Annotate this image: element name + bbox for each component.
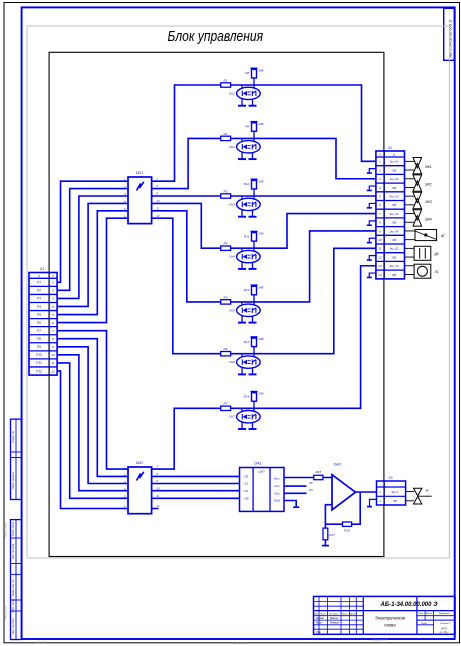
svg-text:Вых: Вых [274, 477, 280, 481]
svg-text:ЭК4: ЭК4 [425, 217, 432, 221]
valve EK4 [413, 210, 422, 226]
wire X2 row 14 to L1 [405, 273, 415, 275]
wire DD2 pin 10 to DAC D2 [152, 490, 240, 492]
power tap +24V unit 4 [253, 232, 255, 233]
resistor R4 [221, 246, 231, 250]
resistor R5 [221, 300, 231, 304]
svg-text:Р9: Р9 [37, 345, 41, 349]
optocoupler VU2 [237, 141, 261, 153]
svg-text:24В: 24В [257, 285, 263, 289]
optocoupler VU3 output legs [241, 210, 243, 217]
svg-text:10: 10 [156, 486, 160, 490]
optocoupler VU7 output legs [241, 422, 243, 429]
terminal block X2 [376, 151, 405, 279]
svg-text:Перв. примен.: Перв. примен. [11, 471, 15, 489]
svg-text:10: 10 [378, 238, 382, 242]
svg-text:Р1: Р1 [37, 281, 41, 285]
power tap +24V unit 6 [253, 337, 255, 338]
resistor R17 [323, 528, 328, 540]
svg-text:Масштаб: Масштаб [439, 613, 450, 615]
terminal block X3 [377, 481, 406, 505]
svg-text:Эм_Д1: Эм_Д1 [389, 247, 399, 251]
svg-text:Оп1: Оп1 [274, 484, 280, 488]
svg-text:VU3: VU3 [229, 202, 235, 206]
optocoupler VU4 output legs [241, 262, 243, 269]
svg-text:ОВ: ОВ [392, 255, 396, 259]
svg-text:8: 8 [52, 337, 54, 341]
svg-text:12: 12 [51, 369, 55, 373]
svg-text:R16: R16 [344, 529, 350, 533]
svg-text:R14: R14 [244, 394, 250, 398]
svg-text:Утв.: Утв. [316, 632, 322, 634]
resistor R13 [252, 338, 257, 347]
wire X2 row 9 to AT1 [405, 230, 416, 232]
svg-text:Ц: Ц [393, 153, 395, 157]
svg-text:Блок управления: Блок управления [168, 29, 264, 45]
svg-text:Подп.: Подп. [342, 613, 348, 616]
svg-text:7: 7 [52, 329, 54, 333]
svg-text:24В: 24В [257, 232, 263, 236]
svg-text:R8: R8 [245, 71, 249, 75]
wire X1 row 5 to DD1 pin 5 [57, 211, 128, 315]
svg-text:VU2: VU2 [229, 145, 235, 149]
boundary line through X2 [383, 151, 385, 279]
wire X2 row 12 to D1 [405, 256, 415, 258]
svg-text:24В: 24В [257, 122, 263, 126]
svg-text:Разраб.: Разраб. [316, 618, 325, 620]
wire X2 row 11 to D1 [405, 247, 415, 249]
svg-text:12: 12 [156, 504, 160, 508]
svg-text:5: 5 [52, 313, 54, 317]
resistor R9 [252, 123, 257, 132]
svg-text:ОВ: ОВ [392, 203, 396, 207]
svg-text:R6: R6 [224, 347, 228, 351]
device boundary rectangle [49, 52, 384, 556]
unit outline (gray) [27, 26, 449, 558]
svg-text:Ц: Ц [38, 274, 40, 278]
resistor R8 [252, 69, 257, 78]
svg-text:схема: схема [384, 623, 396, 628]
common bar at DAC GND [293, 506, 299, 508]
svg-text:D0: D0 [244, 475, 248, 479]
svg-text:ОВ: ОВ [392, 221, 396, 225]
optocoupler VU2 output legs [241, 152, 243, 159]
svg-text:R7: R7 [224, 402, 228, 406]
svg-text:Л1: Л1 [434, 270, 439, 274]
wire X3 row 2 to valve N [406, 500, 414, 502]
svg-text:Лит.: Лит. [417, 613, 424, 615]
svg-text:ОВ: ОВ [392, 186, 396, 190]
resistor R12 [252, 286, 257, 295]
wire feedback resistor to op-amp output [352, 492, 361, 524]
wire X1 row 9 to DD2 pin 3 [57, 347, 128, 484]
power tap +24V unit 3 [253, 179, 255, 180]
wire DD1 pin 8 to unit 2 to X2 row 3 [152, 138, 376, 188]
svg-text:1: 1 [52, 281, 54, 285]
svg-text:R12: R12 [244, 288, 250, 292]
svg-text:13: 13 [378, 264, 382, 268]
svg-text:ОВ: ОВ [392, 238, 396, 242]
wire DD1 pin 9 to unit 3 to X2 row 5 [152, 195, 376, 197]
svg-text:Р10: Р10 [36, 353, 42, 357]
wire DD2 pin 7 to unit 7 to X2 row 13 [152, 266, 376, 469]
svg-text:ОВ: ОВ [393, 499, 397, 503]
wire DAC out to op-amp input [284, 477, 332, 479]
wire X2 row 13 to L1 [405, 265, 415, 267]
svg-text:Лист: Лист [420, 623, 427, 625]
common hook at X3 row 2 [370, 499, 377, 506]
power tap +24V unit 1 [253, 68, 255, 69]
common hooks at X2 even rows [369, 169, 376, 173]
svg-text:Копировал: Копировал [233, 641, 247, 645]
svg-text:Оп2: Оп2 [274, 491, 280, 495]
wire X1 row 4 to DD1 pin 4 [57, 203, 128, 306]
svg-text:VU1: VU1 [229, 91, 235, 95]
power tap +24V unit 5 [253, 285, 255, 286]
svg-text:Листов 1: Листов 1 [439, 623, 451, 625]
wire X2 row 7 to valve EK4 [405, 213, 416, 215]
wire X1 row 12 to DD2 pin 6 [57, 371, 128, 509]
svg-text:Эм_К1: Эм_К1 [389, 160, 399, 164]
svg-text:DD1: DD1 [136, 171, 144, 175]
svg-text:Р12: Р12 [36, 369, 42, 373]
wire op-amp inverting input to feedback node [325, 505, 342, 525]
svg-text:R11: R11 [244, 234, 250, 238]
svg-text:14: 14 [378, 273, 382, 277]
wire X1 row 7 to DD2 pin 1 [57, 331, 128, 469]
svg-text:11: 11 [156, 206, 159, 210]
optocoupler VU6 output legs [241, 367, 243, 374]
wire DD1 pin 7 to unit 1 to X2 row 1 [152, 85, 376, 181]
svg-text:2: 2 [123, 473, 126, 477]
resistor R15 [314, 475, 323, 479]
svg-text:Инв. № подл.: Инв. № подл. [5, 604, 8, 619]
svg-text:5: 5 [379, 194, 381, 198]
ground bar below R17 [322, 545, 329, 547]
svg-text:R13: R13 [244, 340, 250, 344]
svg-text:Х1: Х1 [39, 267, 44, 271]
svg-text:Формат А4: Формат А4 [372, 638, 388, 642]
wire X2 row 10 to AT1 [405, 239, 416, 241]
wire X3 row 1 to valve N [406, 491, 414, 493]
svg-text:11: 11 [378, 247, 381, 251]
svg-text:Масса: Масса [426, 613, 433, 615]
left margin table lower [11, 520, 22, 640]
svg-text:VU7: VU7 [229, 415, 235, 419]
svg-text:24В: 24В [257, 68, 263, 72]
svg-text:АБ-1.34: АБ-1.34 [35, 641, 47, 645]
DAC DA1 [240, 468, 285, 512]
svg-text:Подп. дата: Подп. дата [11, 598, 15, 613]
svg-text:Иванов: Иванов [330, 618, 339, 620]
svg-text:Эм_Н: Эм_Н [391, 490, 398, 494]
svg-text:9: 9 [379, 229, 381, 233]
svg-text:D1: D1 [244, 482, 248, 486]
svg-text:ОВ: ОВ [244, 496, 248, 500]
wire X1 row 3 to DD1 pin 3 [57, 196, 128, 298]
op-amp DA2 [332, 475, 356, 510]
optocoupler VU6 [237, 356, 261, 368]
svg-text:10: 10 [51, 353, 55, 357]
svg-text:8: 8 [379, 221, 381, 225]
svg-text:24В: 24В [257, 337, 263, 341]
svg-text:№ докум.: № докум. [329, 613, 339, 616]
optocoupler VU7 [237, 411, 261, 423]
svg-text:Н: Н [426, 489, 429, 493]
svg-text:ЭК2: ЭК2 [425, 183, 432, 187]
wire X1 row 10 to DD2 pin 4 [57, 355, 128, 491]
svg-text:11: 11 [51, 361, 54, 365]
wire DD1 pin 10 to unit 4 to X2 row 7 [152, 203, 376, 248]
svg-text:9: 9 [52, 345, 54, 349]
svg-text:Петров: Петров [330, 623, 339, 625]
svg-text:Лист: Лист [319, 614, 326, 616]
autotransformer AT1 [415, 230, 437, 241]
power tap +24V unit 2 [253, 122, 255, 123]
svg-text:Взам. инв. №: Взам. инв. № [11, 580, 15, 596]
boundary line through X3 [383, 481, 385, 505]
svg-text:VU4: VU4 [229, 255, 235, 259]
wire X2 row 5 to valve EK3 [405, 195, 416, 197]
svg-text:АБ-1-34.00.00.000 Э: АБ-1-34.00.00.000 Э [380, 602, 439, 608]
svg-text:R9: R9 [245, 125, 249, 129]
svg-text:4: 4 [379, 186, 381, 190]
svg-text:Пров.: Пров. [316, 623, 322, 625]
valve EK1 [413, 158, 422, 174]
wire X2 row 8 to valve EK4 [405, 221, 416, 223]
motor D1 [414, 246, 431, 260]
wire DD2 pin 12 stub [152, 508, 159, 510]
resistor R14 [252, 393, 257, 402]
svg-text:Эм_К4: Эм_К4 [389, 212, 399, 216]
wire op-amp output to X3 row 1 [356, 491, 377, 493]
svg-text:4: 4 [52, 305, 54, 309]
svg-text:R3: R3 [224, 189, 228, 193]
svg-text:3: 3 [379, 177, 381, 181]
svg-text:24В: 24В [257, 179, 263, 183]
top-right designation box [444, 8, 455, 60]
svg-text:Р6: Р6 [37, 321, 41, 325]
wire X2 row 2 to valve EK1 [405, 169, 416, 171]
svg-text:Эм_К3: Эм_К3 [389, 194, 399, 198]
svg-text:10: 10 [156, 199, 160, 203]
svg-text:гр. АБ-1: гр. АБ-1 [439, 631, 449, 634]
resistor R10 [252, 180, 257, 189]
svg-text:ЦАП: ЦАП [258, 470, 265, 474]
title block [314, 596, 456, 634]
svg-text:Р8: Р8 [37, 337, 41, 341]
svg-text:24В: 24В [257, 392, 263, 396]
svg-text:DA2: DA2 [334, 463, 342, 467]
wire X2 row 3 to valve EK2 [405, 178, 416, 180]
resistor R2 [221, 136, 231, 140]
svg-text:ОВ: ОВ [392, 168, 396, 172]
svg-text:Р11: Р11 [36, 361, 42, 365]
optocoupler VU5 output legs [241, 316, 243, 323]
valve EK3 [413, 192, 422, 208]
svg-text:2: 2 [378, 168, 381, 172]
svg-text:Р2: Р2 [37, 289, 41, 293]
svg-text:R10: R10 [244, 182, 250, 186]
wire DAC GND to common [284, 501, 296, 507]
svg-text:DD2: DD2 [136, 461, 144, 465]
svg-text:Р5: Р5 [37, 313, 41, 317]
svg-text:Инв. № подл.: Инв. № подл. [11, 618, 15, 634]
wire DAC ref stub 2 [284, 492, 307, 494]
resistor R7 [221, 406, 231, 410]
wire DD2 pin 11 to DAC D3 [152, 497, 240, 499]
svg-text:2: 2 [51, 289, 54, 293]
svg-text:6: 6 [52, 321, 54, 325]
svg-text:2: 2 [123, 185, 126, 189]
svg-text:DA1: DA1 [254, 461, 261, 465]
svg-text:Эм_АТ: Эм_АТ [389, 229, 400, 233]
svg-text:R2: R2 [224, 132, 228, 136]
terminal block X1 [29, 273, 57, 376]
svg-text:R4: R4 [224, 242, 228, 246]
svg-text:Х3: Х3 [387, 476, 392, 480]
svg-text:11: 11 [156, 494, 159, 498]
svg-text:ЭК3: ЭК3 [425, 200, 433, 204]
wire DD1 pin 11 to unit 5 to X2 row 9 [152, 211, 376, 302]
wire DD2 pin 8 to DAC D0 [152, 475, 240, 477]
optocoupler VU3 [237, 198, 261, 210]
svg-text:ПС: ПС [309, 481, 313, 485]
svg-text:Эм_Л1: Эм_Л1 [389, 264, 399, 268]
svg-text:VU6: VU6 [229, 360, 235, 364]
svg-text:Р4: Р4 [37, 305, 41, 309]
IC DD2 [128, 467, 152, 514]
svg-text:R15: R15 [315, 470, 321, 474]
svg-text:ОВ: ОВ [392, 273, 396, 277]
svg-text:Р7: Р7 [37, 329, 41, 333]
svg-text:Подп. дата: Подп. дата [11, 521, 15, 536]
resistor R3 [221, 194, 231, 198]
valve N [414, 488, 422, 504]
svg-text:Х2: Х2 [387, 146, 392, 150]
wire feedback node to ground resistor [324, 524, 326, 545]
svg-text:Инв. № дубл.: Инв. № дубл. [11, 543, 15, 559]
svg-text:6: 6 [379, 203, 381, 207]
valve EK2 [413, 175, 422, 191]
svg-text:Справ. №: Справ. № [11, 431, 15, 443]
wire X1 row 8 to DD2 pin 2 [57, 339, 128, 477]
svg-text:VU5: VU5 [229, 308, 235, 312]
wire DD1 pin 12 to unit 6 to X2 row 11 [152, 218, 376, 354]
resistor R1 [221, 83, 231, 87]
wire X2 row 1 to valve EK1 [405, 160, 416, 162]
resistor R16 [343, 522, 352, 526]
wire X1 row 6 to DD1 pin 6 [57, 218, 128, 322]
svg-text:3: 3 [52, 297, 54, 301]
svg-text:12: 12 [156, 214, 160, 218]
svg-text:12: 12 [378, 255, 382, 259]
svg-text:GND: GND [274, 499, 280, 503]
wire X2 row 4 to valve EK2 [405, 186, 416, 188]
lamp L1 [414, 264, 431, 278]
svg-text:R1: R1 [224, 78, 228, 82]
optocoupler VU1 output legs [241, 99, 243, 106]
svg-text:2: 2 [378, 499, 381, 503]
wire X2 row 6 to valve EK3 [405, 204, 416, 206]
svg-text:Дата: Дата [349, 614, 357, 616]
svg-text:Подп. и дата: Подп. и дата [5, 522, 8, 538]
svg-text:ЭК1: ЭК1 [425, 165, 432, 169]
boundary line through X1 [48, 273, 50, 376]
svg-text:7: 7 [379, 212, 381, 216]
svg-text:Р3: Р3 [37, 297, 41, 301]
power tap +24V unit 7 [253, 392, 255, 393]
optocoupler VU4 [237, 250, 261, 262]
wire DD2 pin 9 to DAC D1 [152, 483, 240, 485]
wire X1 row 11 to DD2 pin 5 [57, 363, 128, 498]
svg-text:Изм: Изм [314, 614, 319, 616]
svg-text:R5: R5 [224, 295, 228, 299]
svg-text:Эм_К2: Эм_К2 [389, 177, 399, 181]
optocoupler VU1 [237, 87, 261, 99]
wire DAC ref stub 1 [284, 485, 307, 487]
svg-text:D2: D2 [244, 489, 248, 493]
optocoupler VU5 [237, 304, 261, 316]
svg-text:R17: R17 [329, 533, 335, 537]
svg-text:ОС: ОС [309, 488, 313, 492]
resistor R6 [221, 352, 231, 356]
resistor R11 [252, 233, 257, 242]
IC DD1 [128, 177, 152, 224]
svg-text:1: 1 [379, 160, 381, 164]
svg-text:Электрическая: Электрическая [375, 616, 406, 621]
wire X1 row 2 to DD1 pin 2 [57, 189, 128, 291]
svg-text:Д1: Д1 [434, 252, 439, 256]
wire X1 row 1 to DD1 pin 1 [57, 181, 128, 282]
left margin table upper [11, 419, 22, 499]
